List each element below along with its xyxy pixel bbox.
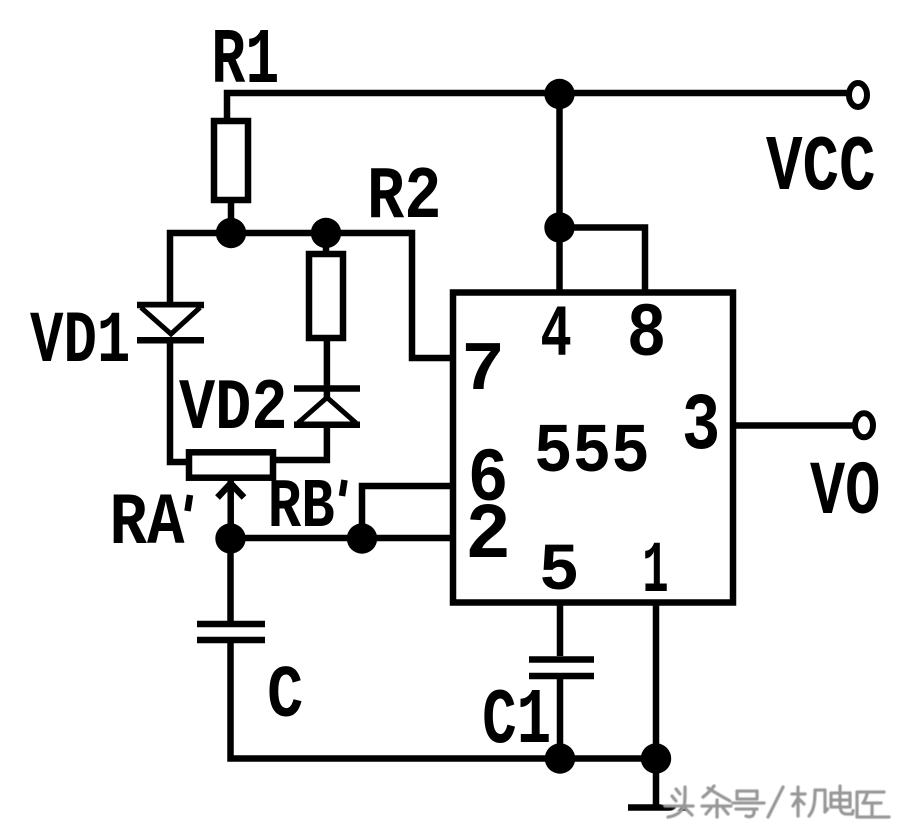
svg-text:C: C (267, 656, 303, 740)
svg-text:2: 2 (465, 492, 511, 581)
svg-text:3: 3 (682, 380, 720, 472)
svg-text:7: 7 (461, 332, 505, 410)
svg-text:VCC: VCC (766, 124, 876, 214)
svg-text:VO: VO (810, 451, 880, 536)
svg-text:4: 4 (540, 295, 572, 378)
svg-text:8: 8 (627, 293, 667, 378)
svg-text:1: 1 (642, 532, 668, 614)
svg-text:VD1: VD1 (30, 301, 130, 383)
svg-text:RA: RA (110, 484, 185, 566)
svg-text:R1: R1 (211, 16, 279, 106)
svg-text:VD2: VD2 (179, 368, 287, 451)
svg-text:C1: C1 (482, 676, 551, 766)
svg-text:5: 5 (539, 535, 580, 610)
svg-text:555: 555 (534, 414, 650, 493)
svg-text:R2: R2 (367, 155, 441, 240)
svg-text:RB: RB (268, 467, 335, 547)
